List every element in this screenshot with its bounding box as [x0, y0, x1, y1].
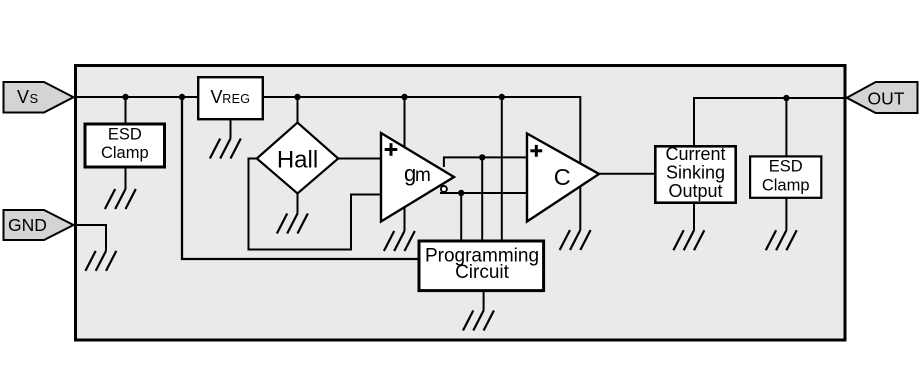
- svg-text:V: V: [17, 87, 29, 107]
- wire: Hall right output to gm + input: [336, 158, 382, 160]
- svg-text:Clamp: Clamp: [762, 177, 810, 195]
- wire: comparator output to current sinking output block: [598, 173, 656, 175]
- current sinking output box: [655, 144, 735, 203]
- wire: programming circuit tap to supply rail: [501, 97, 503, 241]
- wire: Hall ground lead: [297, 192, 299, 214]
- wire: programming circuit ground lead: [483, 290, 485, 311]
- wire: drop to right ESD clamp: [785, 98, 787, 158]
- ground: below left ESD clamp: [105, 189, 136, 209]
- svg-text:OUT: OUT: [868, 89, 905, 109]
- svg-text:Clamp: Clamp: [101, 144, 149, 162]
- wire: drop to Hall plate: [297, 97, 299, 126]
- svg-text:C: C: [554, 164, 571, 190]
- junction dot: rail / programming feed: [179, 94, 185, 100]
- pin tag VS: [4, 82, 74, 113]
- wire: VREG ground lead: [230, 118, 232, 139]
- pin tag OUT: [847, 82, 918, 113]
- svg-text:Hall: Hall: [277, 146, 318, 173]
- wire: gm inverted output to comparator lower input: [440, 192, 527, 194]
- right ESD clamp box: [750, 156, 821, 197]
- ground: below comparator: [560, 230, 591, 250]
- junction dot: OUT rail / right ESD clamp: [783, 95, 789, 101]
- junction dot: rail / left ESD clamp: [122, 94, 128, 100]
- wire: current sink output up to OUT rail: [694, 98, 846, 146]
- wire: drop to left ESD clamp: [125, 97, 127, 126]
- wire: programming circuit tap to upper comparator input: [481, 157, 483, 241]
- wire: GND pin lead into ground: [74, 225, 106, 251]
- programming circuit box: [419, 241, 544, 291]
- svg-text:ESD: ESD: [769, 158, 803, 176]
- svg-text:GND: GND: [8, 215, 47, 235]
- ground: below current sinking output: [673, 230, 704, 250]
- junction dot: rail / programming tap: [499, 94, 505, 100]
- left ESD clamp box: [85, 124, 165, 167]
- ground: below gm: [384, 231, 415, 251]
- svg-text:S: S: [30, 91, 39, 106]
- wire: rail feed down and across to programming circuit: [182, 97, 420, 259]
- junction dot: upper comparator wire / programming tap: [479, 154, 485, 160]
- wire: current sinking output ground lead: [693, 202, 695, 230]
- ground: below right ESD clamp: [766, 230, 797, 250]
- ground: below VREG: [210, 139, 241, 159]
- svg-text:Output: Output: [668, 181, 722, 201]
- Hall element diamond: [257, 123, 338, 194]
- svg-text:V: V: [211, 87, 223, 107]
- gm inverted-output bubble: [441, 186, 447, 192]
- ground: below Hall element: [277, 214, 308, 234]
- comparator C: [527, 134, 599, 222]
- regulator U-VREG box: [198, 77, 263, 119]
- wire: gm upper output to comparator + input: [444, 157, 527, 167]
- svg-text:m: m: [415, 165, 431, 186]
- wire: programming circuit tap to lower comparator input: [460, 193, 462, 241]
- wire: left ESD clamp ground lead: [125, 166, 127, 189]
- wire: VS supply rail: [74, 97, 580, 230]
- svg-text:Sinking: Sinking: [666, 163, 725, 183]
- pin tag GND: [4, 210, 74, 240]
- junction dot: rail / Hall drop: [294, 94, 300, 100]
- op-amp gm (transconductance amplifier): [381, 133, 454, 222]
- wire: Hall left output U-path to gm lower input: [249, 159, 383, 250]
- svg-text:Circuit: Circuit: [455, 262, 510, 283]
- svg-text:REG: REG: [222, 92, 250, 106]
- wire: gm supply through to ground: [404, 97, 406, 231]
- svg-text:Current: Current: [665, 144, 725, 164]
- junction dot: rail / gm supply: [401, 94, 407, 100]
- ground: GND pin: [85, 251, 116, 271]
- IC outline box: [76, 66, 846, 341]
- ground: below programming circuit: [463, 311, 494, 331]
- wire: right ESD clamp ground lead: [785, 197, 787, 230]
- svg-text:ESD: ESD: [108, 126, 142, 144]
- junction dot: lower comparator wire / programming tap: [458, 190, 464, 196]
